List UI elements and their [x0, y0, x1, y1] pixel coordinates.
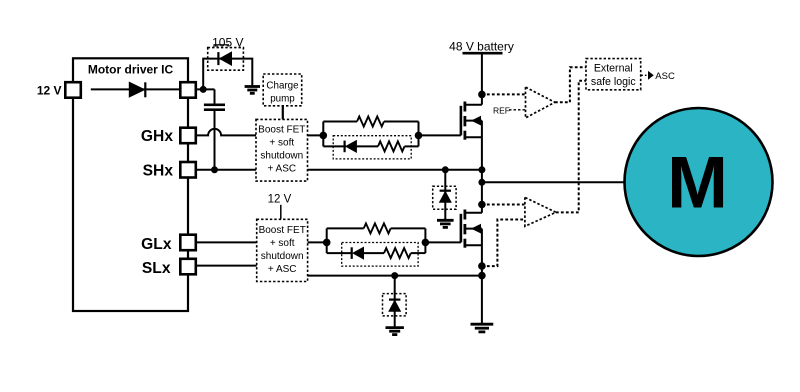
svg-text:Boost FET: Boost FET	[259, 225, 306, 236]
svg-text:safe logic: safe logic	[591, 76, 636, 88]
svg-text:Motor driver IC: Motor driver IC	[88, 63, 174, 77]
svg-text:+ soft: + soft	[269, 138, 294, 149]
svg-text:External: External	[594, 63, 633, 75]
svg-text:48 V battery: 48 V battery	[449, 40, 514, 54]
svg-text:Boost FET: Boost FET	[258, 125, 305, 136]
svg-text:REF: REF	[493, 106, 510, 116]
svg-text:SHx: SHx	[143, 163, 174, 180]
svg-text:12 V: 12 V	[37, 84, 62, 98]
svg-text:GHx: GHx	[141, 128, 173, 145]
svg-text:GLx: GLx	[141, 236, 172, 253]
svg-text:12 V: 12 V	[268, 194, 292, 206]
svg-text:105 V: 105 V	[212, 36, 243, 50]
svg-text:pump: pump	[270, 94, 295, 105]
svg-text:+ soft: + soft	[270, 238, 295, 249]
svg-text:SLx: SLx	[142, 260, 171, 277]
svg-text:Charge: Charge	[266, 81, 299, 92]
svg-text:shutdown: shutdown	[260, 151, 303, 162]
svg-text:+ ASC: + ASC	[267, 164, 296, 175]
svg-text:shutdown: shutdown	[261, 251, 304, 262]
svg-text:ASC: ASC	[655, 71, 675, 82]
svg-text:+ ASC: + ASC	[268, 264, 297, 275]
svg-text:M: M	[667, 142, 728, 223]
